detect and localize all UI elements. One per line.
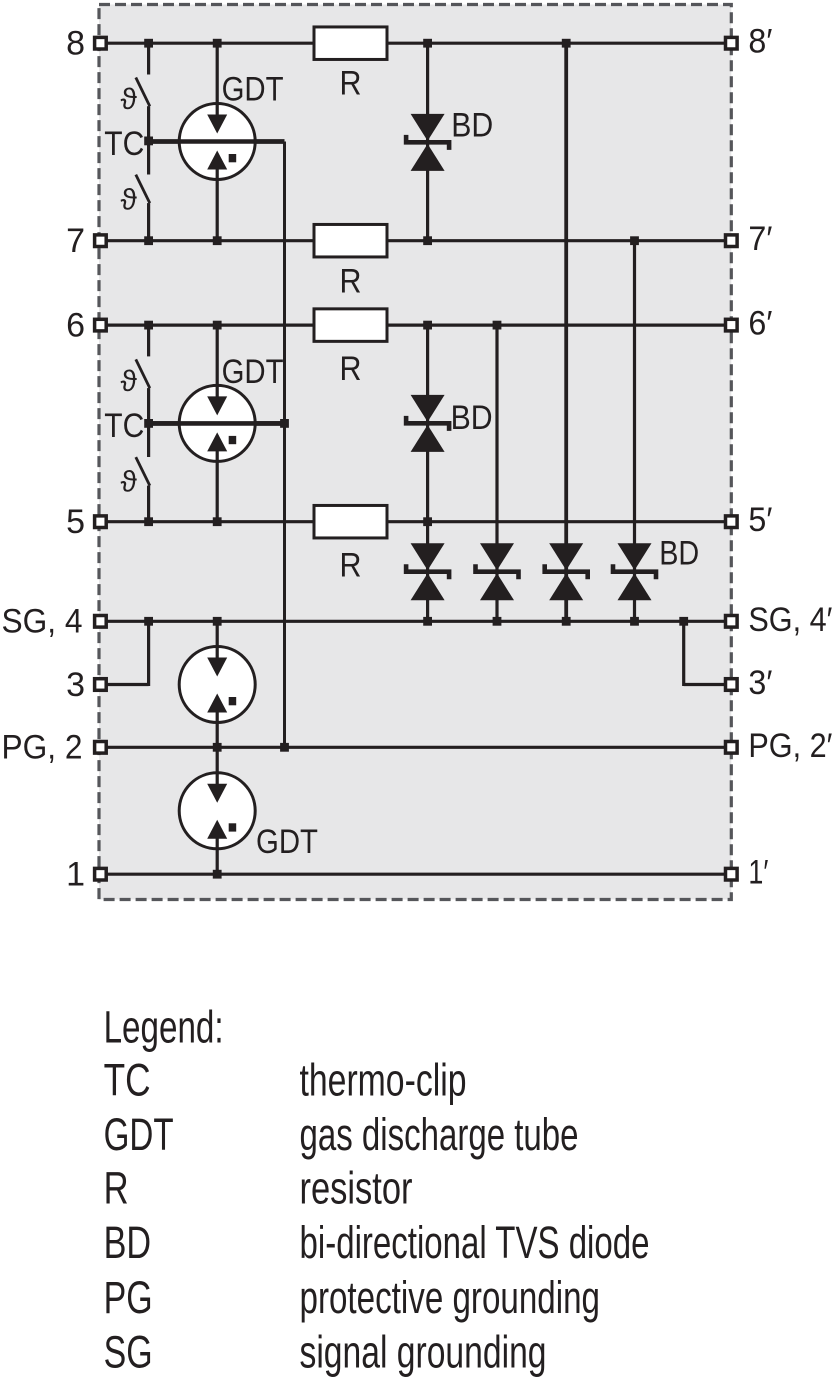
junction rail 6 #3 — [423, 321, 432, 330]
junction rail 5 #1 — [144, 517, 153, 526]
svg-text:PG, 2′: PG, 2′ — [748, 727, 832, 765]
svg-text:8′: 8′ — [748, 23, 772, 61]
gas discharge tube GDT U1 (3-electrode, rails 8-7) — [179, 104, 255, 180]
svg-text:6: 6 — [66, 306, 85, 344]
enclosure fill (SPD module body) — [99, 5, 731, 900]
junction TC tap U2 #1 — [144, 419, 153, 428]
wire rail 6-6' — [100, 324, 731, 327]
junction rail 7 #1 — [144, 236, 153, 245]
terminal 1 — [95, 868, 107, 880]
bi-directional TVS diode BD (rails 8-7) — [411, 114, 445, 141]
junction rail 8 #2 — [213, 39, 222, 48]
svg-text:R: R — [340, 262, 362, 300]
junction rail SG,4 #5 — [562, 617, 571, 626]
svg-text:5: 5 — [66, 503, 85, 541]
resistor R (rail 7) — [314, 224, 387, 257]
svg-text:ϑ: ϑ — [120, 365, 137, 398]
resistor R (rail 5) — [314, 505, 387, 538]
junction rail 1 #1 — [213, 870, 222, 879]
terminal 8 — [95, 37, 107, 49]
junction rail 8 #1 — [144, 39, 153, 48]
enclosure dashed boundary — [99, 5, 731, 900]
wire rail 8-8' — [100, 42, 731, 45]
terminal SG, 4 — [95, 616, 107, 628]
terminal 6 — [95, 319, 107, 331]
bi-directional TVS diode BD row 4 — [618, 543, 652, 570]
junction rail SG,4 #1 — [144, 617, 153, 626]
svg-text:gas discharge tube: gas discharge tube — [300, 1109, 579, 1160]
svg-text:Legend:: Legend: — [104, 1001, 224, 1052]
svg-text:R: R — [340, 350, 362, 388]
bi-directional TVS diode BD (rails 6-5) — [411, 395, 445, 422]
svg-text:1: 1 — [66, 856, 85, 894]
wire terminal 3 stub — [100, 683, 148, 686]
svg-text:6′: 6′ — [748, 305, 772, 343]
terminal 5' (right) — [726, 516, 738, 528]
wire BD D6 stem (rail 7 to SG,4) — [633, 241, 636, 622]
svg-text:3′: 3′ — [748, 664, 772, 702]
gas discharge tube GDT U4 (rails PG,2-1) — [179, 773, 255, 849]
svg-text:SG: SG — [104, 1327, 153, 1378]
junction rail 6 #1 — [144, 321, 153, 330]
junction rail SG,4 #7 — [679, 617, 688, 626]
junction TC tap U1 #1 — [144, 137, 153, 146]
terminal PG, 2' (right) — [726, 742, 738, 754]
svg-text:BD: BD — [659, 535, 699, 573]
svg-text:ϑ: ϑ — [120, 466, 137, 499]
junction rail 5 #2 — [213, 517, 222, 526]
svg-text:GDT: GDT — [222, 353, 284, 391]
junction rail SG,4 #2 — [213, 617, 222, 626]
thermo-clip chain TC (between rails 6 and 5) — [147, 325, 150, 356]
svg-text:GDT: GDT — [104, 1109, 174, 1160]
wire GDT U1 middle electrode overlay — [149, 139, 285, 144]
wire BD D5 stem (rail 8 to SG,4) — [564, 43, 568, 621]
wire BD D3 stem (rail 5 to SG,4) — [426, 522, 429, 622]
wire GDT U2 middle electrode — [149, 421, 285, 426]
thermo-clip chain TC (between rails 8 and 7) — [147, 43, 150, 74]
wire rail 1-1' — [100, 873, 731, 876]
svg-text:resistor: resistor — [300, 1163, 413, 1214]
terminal 8' (right) — [726, 37, 738, 49]
svg-text:GDT: GDT — [256, 823, 318, 861]
svg-text:R: R — [104, 1163, 129, 1214]
terminal 3 — [95, 679, 107, 691]
junction rail 8 #4 — [562, 39, 571, 48]
junction rail SG,4 #4 — [493, 617, 502, 626]
terminal PG, 2 — [95, 742, 107, 754]
wire BD D1 stem (rail 8 to rail 7) — [426, 43, 429, 241]
svg-text:R: R — [340, 546, 362, 584]
resistor R (rail 6) — [314, 309, 387, 342]
terminal 7' (right) — [726, 235, 738, 247]
junction rail 6 #2 — [213, 321, 222, 330]
junction middle electrode riser #1 — [280, 419, 289, 428]
svg-text:TC: TC — [104, 125, 144, 163]
svg-text:protective grounding: protective grounding — [300, 1272, 601, 1323]
wire rail 5-5' — [100, 520, 731, 523]
svg-text:8: 8 — [66, 25, 85, 63]
svg-text:5′: 5′ — [748, 501, 772, 539]
svg-text:ϑ: ϑ — [120, 184, 137, 217]
wire GDT U2 middle electrode overlay — [149, 421, 285, 426]
junction rail SG,4 #3 — [423, 617, 432, 626]
svg-text:TC: TC — [104, 1055, 151, 1106]
gas discharge tube GDT U2 (3-electrode, rails 6-5) — [179, 385, 255, 461]
wire GDT U1 middle electrode — [149, 139, 285, 144]
gas discharge tube GDT U3 (rails SG,4-PG,2) — [179, 647, 255, 723]
svg-text:thermo-clip: thermo-clip — [300, 1055, 467, 1106]
wire rail SG,4-SG,4' — [100, 620, 731, 623]
svg-text:SG, 4′: SG, 4′ — [748, 601, 832, 639]
junction rail PG,2 #1 — [213, 743, 222, 752]
terminal 6' (right) — [726, 319, 738, 331]
svg-text:R: R — [340, 65, 362, 103]
junction rail 7 #4 — [630, 236, 639, 245]
junction rail 6 #4 — [493, 321, 502, 330]
junction rail SG,4 #6 — [630, 617, 639, 626]
svg-text:PG: PG — [104, 1272, 153, 1323]
wire BD D4 stem (rail 6 to SG,4) — [495, 325, 498, 621]
svg-text:signal grounding: signal grounding — [300, 1327, 547, 1378]
terminal 7 — [95, 235, 107, 247]
junction rail 7 #2 — [213, 236, 222, 245]
svg-text:BD: BD — [451, 107, 493, 145]
wire node 3' riser — [682, 621, 685, 686]
svg-text:7: 7 — [66, 222, 85, 260]
wire BD D2 stem (rail 6 to rail 5) — [426, 325, 429, 522]
junction rail 5 #3 — [423, 517, 432, 526]
wire rail 7-7' — [100, 239, 731, 242]
terminal 1' (right) — [726, 868, 738, 880]
svg-text:BD: BD — [451, 399, 493, 437]
svg-text:BD: BD — [104, 1217, 152, 1268]
terminal 3' (right) — [726, 679, 738, 691]
svg-text:7′: 7′ — [748, 220, 772, 258]
svg-text:3: 3 — [66, 666, 85, 704]
bi-directional TVS diode BD row 1 — [411, 543, 445, 570]
terminal 5 — [95, 516, 107, 528]
svg-text:TC: TC — [104, 407, 144, 445]
svg-text:bi-directional TVS diode: bi-directional TVS diode — [300, 1217, 650, 1268]
svg-text:ϑ: ϑ — [120, 83, 137, 116]
wire node 3 riser — [147, 621, 150, 686]
wire terminal 3' stub — [684, 683, 732, 686]
svg-text:SG, 4: SG, 4 — [2, 603, 83, 641]
junction rail PG,2 #2 — [280, 743, 289, 752]
svg-text:GDT: GDT — [222, 71, 284, 109]
bi-directional TVS diode BD row 2 — [480, 543, 514, 570]
wire middle-electrode riser to PG — [283, 142, 286, 748]
bi-directional TVS diode BD row 3 — [549, 543, 583, 570]
svg-text:1′: 1′ — [748, 854, 768, 892]
terminal SG, 4' (right) — [726, 616, 738, 628]
svg-text:PG, 2: PG, 2 — [2, 729, 83, 767]
junction rail 8 #3 — [423, 39, 432, 48]
junction rail 7 #3 — [423, 236, 432, 245]
resistor R (rail 8) — [314, 27, 387, 60]
wire rail PG,2-PG,2' — [100, 746, 731, 749]
